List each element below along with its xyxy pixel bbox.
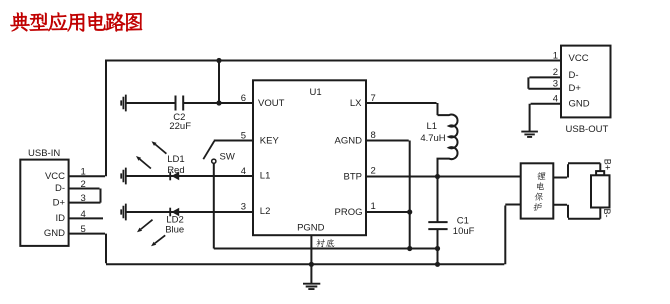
svg-text:4: 4 (81, 209, 86, 220)
svg-text:USB-IN: USB-IN (28, 148, 60, 159)
svg-text:4: 4 (553, 93, 558, 104)
svg-text:5: 5 (241, 130, 246, 141)
svg-text:2: 2 (553, 67, 558, 78)
svg-text:5: 5 (81, 224, 86, 235)
svg-text:LD1: LD1 (167, 154, 184, 165)
svg-text:1: 1 (553, 50, 558, 61)
svg-text:6: 6 (241, 93, 246, 104)
svg-text:4.7uH: 4.7uH (420, 133, 445, 144)
svg-text:D-: D- (569, 70, 579, 81)
svg-text:GND: GND (44, 228, 65, 239)
svg-text:3: 3 (81, 193, 86, 204)
svg-text:USB-OUT: USB-OUT (566, 124, 609, 135)
svg-text:AGND: AGND (335, 136, 363, 147)
svg-text:PGND: PGND (297, 222, 325, 233)
svg-text:L1: L1 (260, 171, 271, 182)
svg-text:3: 3 (241, 201, 246, 212)
svg-text:SW: SW (220, 152, 235, 163)
svg-text:Blue: Blue (165, 225, 184, 236)
svg-text:VCC: VCC (569, 53, 589, 64)
svg-text:8: 8 (371, 130, 376, 141)
svg-text:B+: B+ (603, 159, 613, 170)
svg-text:VCC: VCC (45, 171, 65, 182)
svg-text:1: 1 (371, 201, 376, 212)
svg-text:GND: GND (569, 99, 590, 110)
svg-text:D-: D- (55, 183, 65, 194)
svg-text:KEY: KEY (260, 136, 280, 147)
svg-text:L2: L2 (260, 206, 271, 217)
svg-text:Red: Red (167, 165, 184, 176)
svg-text:C1: C1 (457, 216, 469, 227)
svg-text:BTP: BTP (344, 172, 362, 183)
svg-text:L1: L1 (427, 121, 438, 132)
svg-text:LX: LX (350, 98, 362, 109)
svg-text:2: 2 (81, 179, 86, 190)
svg-text:1: 1 (81, 167, 86, 178)
svg-text:ID: ID (56, 213, 66, 224)
svg-text:PROG: PROG (335, 207, 363, 218)
svg-text:4: 4 (241, 166, 246, 177)
svg-text:2: 2 (371, 166, 376, 177)
svg-text:B-: B- (602, 209, 612, 218)
svg-text:D+: D+ (53, 197, 66, 208)
svg-text:3: 3 (553, 78, 558, 89)
svg-text:10uF: 10uF (453, 226, 475, 237)
svg-text:22uF: 22uF (169, 121, 191, 132)
svg-text:D+: D+ (569, 83, 582, 94)
svg-text:7: 7 (371, 93, 376, 104)
svg-text:U1: U1 (310, 87, 322, 98)
svg-text:VOUT: VOUT (258, 98, 285, 109)
